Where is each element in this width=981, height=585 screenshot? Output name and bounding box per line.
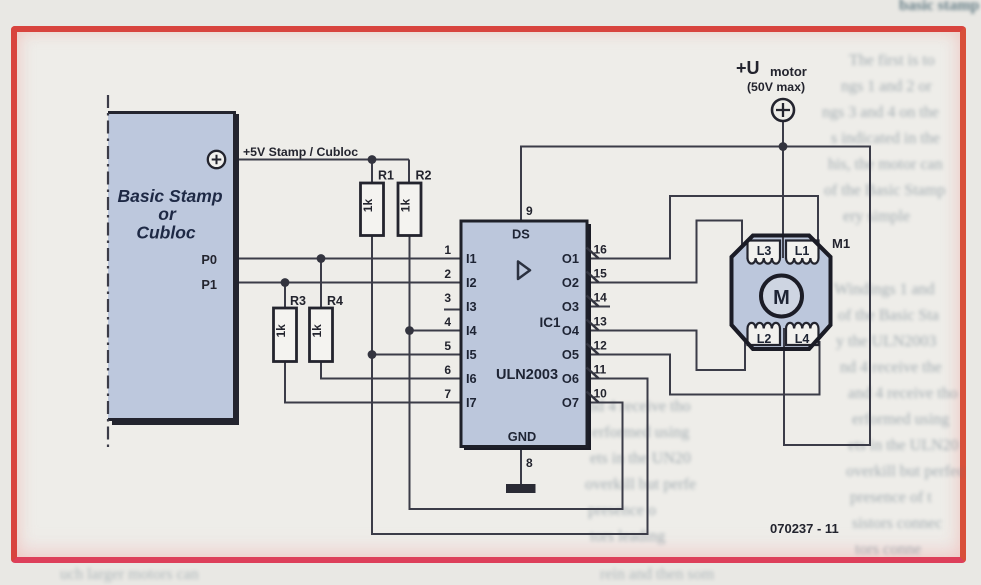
svg-text:I6: I6	[466, 371, 477, 386]
inductor L1 winding	[786, 241, 819, 264]
svg-text:Cubloc: Cubloc	[136, 223, 196, 243]
node junction +U	[779, 142, 788, 151]
IC1 labels	[496, 227, 561, 445]
wire motor centre tap bottom	[783, 328, 785, 348]
svg-text:(50V max): (50V max)	[747, 80, 805, 94]
wire R2 bottom through I4 dot down to inner loop to O7	[410, 236, 623, 510]
+5V terminal on stamp	[208, 151, 225, 168]
svg-text:12: 12	[594, 339, 608, 353]
svg-text:9: 9	[526, 204, 533, 218]
svg-text:1k: 1k	[399, 199, 413, 213]
wire O2 to motor L3 left terminal	[589, 221, 742, 283]
wire motor centre tap top	[782, 236, 784, 258]
svg-text:L1: L1	[795, 244, 810, 258]
wire R4 bottom to I6	[321, 362, 463, 379]
svg-text:L4: L4	[795, 332, 810, 346]
pin numbers 1-7 left	[444, 243, 451, 401]
resistor R4	[310, 294, 344, 362]
svg-text:14: 14	[594, 291, 608, 305]
inductor L2 winding	[748, 323, 780, 346]
wire GND pin 8 stub	[520, 447, 522, 484]
svg-text:11: 11	[594, 363, 607, 377]
svg-text:1: 1	[444, 243, 451, 257]
svg-text:3: 3	[444, 291, 451, 305]
svg-text:O7: O7	[562, 395, 579, 410]
svg-text:+5V Stamp / Cubloc: +5V Stamp / Cubloc	[243, 145, 358, 159]
wire P0 from stamp to I1	[236, 259, 463, 309]
+U motor terminal	[772, 99, 794, 121]
wire +5V rail from stamp to R1/R2	[226, 160, 409, 184]
svg-text:13: 13	[594, 315, 608, 329]
IC1 input pin labels I1-I7	[466, 251, 478, 410]
Basic Stamp module box	[108, 111, 239, 425]
svg-text:O5: O5	[562, 347, 579, 362]
svg-text:I1: I1	[466, 251, 477, 266]
IC1 output pin labels O1-O7	[562, 251, 580, 410]
node junction P1/R3	[281, 278, 290, 287]
motor M1 octagon outline restroke	[732, 236, 831, 350]
svg-text:M1: M1	[832, 236, 850, 251]
svg-text:Basic Stamp: Basic Stamp	[117, 186, 222, 206]
node junction I4/R2/O7	[405, 326, 414, 335]
node junction P0/R4	[317, 254, 326, 263]
svg-text:R2: R2	[416, 169, 432, 183]
svg-text:16: 16	[594, 243, 608, 257]
wire O4 to motor L2 left terminal	[589, 331, 745, 371]
svg-text:I5: I5	[466, 347, 477, 362]
svg-text:8: 8	[526, 456, 533, 470]
pin ticks and numbers 16-10 right	[587, 248, 599, 403]
svg-text:DS: DS	[512, 227, 530, 242]
op-amp U1 : IC1 ULN2003 body	[461, 221, 591, 450]
resistor R2	[398, 169, 432, 236]
svg-text:2: 2	[444, 267, 451, 281]
svg-text:I3: I3	[466, 299, 477, 314]
svg-text:1k: 1k	[361, 199, 375, 213]
svg-text:I4: I4	[466, 323, 478, 338]
ground	[506, 484, 536, 493]
bleed-through below frame	[60, 566, 199, 584]
svg-text:O4: O4	[562, 323, 580, 338]
motor M1 octagon body	[732, 236, 831, 350]
inductor L3 winding	[748, 241, 781, 264]
svg-text:O2: O2	[562, 275, 579, 290]
svg-text:O1: O1	[562, 251, 579, 266]
svg-text:+U: +U	[736, 58, 760, 78]
wire P1 from stamp to I2	[236, 283, 463, 309]
wire I3 stub	[444, 309, 463, 311]
svg-text:R1: R1	[378, 169, 394, 183]
svg-text:7: 7	[444, 387, 451, 401]
node junction +5V/R1	[368, 155, 377, 164]
node junction I5/R1/O6	[368, 350, 377, 359]
wire O5 to motor L4 right terminal	[589, 341, 820, 395]
svg-text:070237 - 11: 070237 - 11	[770, 521, 839, 536]
bleed-through magazine column text (right side, behind schematic)	[849, 52, 935, 70]
svg-text:10: 10	[594, 387, 608, 401]
svg-text:P0: P0	[201, 252, 217, 267]
svg-text:M: M	[773, 287, 790, 309]
svg-text:IC1: IC1	[539, 315, 561, 330]
svg-text:1k: 1k	[310, 324, 324, 338]
svg-text:15: 15	[594, 267, 608, 281]
svg-text:GND: GND	[508, 429, 536, 444]
svg-text:L2: L2	[757, 332, 772, 346]
bleed-through fragments left of gap	[588, 398, 691, 416]
wire +U node: terminal to DS pin9, motor taps	[521, 121, 870, 445]
svg-text:R3: R3	[290, 294, 306, 308]
svg-text:I2: I2	[466, 275, 477, 290]
svg-text:I7: I7	[466, 395, 477, 410]
svg-text:R4: R4	[327, 294, 343, 308]
svg-text:P1: P1	[201, 277, 217, 292]
wire O1 to motor L1 right terminal	[589, 196, 818, 259]
svg-text:O6: O6	[562, 371, 579, 386]
svg-text:4: 4	[444, 315, 451, 329]
svg-text:ULN2003: ULN2003	[496, 367, 558, 383]
wire R3 bottom to I7	[285, 362, 463, 403]
svg-text:L3: L3	[757, 244, 772, 258]
inductor L4 winding	[786, 323, 818, 346]
page bleed-through text top right	[899, 0, 979, 15]
svg-text:6: 6	[444, 363, 451, 377]
svg-text:or: or	[158, 204, 177, 224]
Basic Stamp left continuation dash-dot line	[107, 95, 109, 450]
svg-text:O3: O3	[562, 299, 579, 314]
label +U motor (50V max)	[736, 58, 807, 94]
motor M circle symbol	[761, 276, 802, 317]
svg-text:motor: motor	[770, 64, 807, 79]
wire R1 bottom through I5 dot down to bottom loop to O6	[372, 236, 648, 535]
resistor R1	[361, 169, 395, 236]
resistor R3	[274, 294, 307, 362]
wire O3 stub	[589, 306, 610, 308]
svg-text:5: 5	[444, 339, 451, 353]
svg-text:1k: 1k	[274, 324, 288, 338]
IC1 inverter triangle symbol	[518, 262, 530, 280]
Basic Stamp label	[117, 186, 222, 243]
